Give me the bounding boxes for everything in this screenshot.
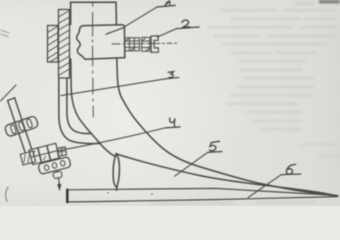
- leader 6: [248, 175, 281, 198]
- clamp right square with bolt cross: [57, 147, 67, 156]
- bent strap inner: [67, 78, 92, 134]
- blade long edge (6): [117, 154, 339, 196]
- column (stand): [71, 2, 121, 96]
- leader 5: [175, 152, 208, 176]
- label 2: [176, 20, 199, 29]
- faint mark left edge: [1, 30, 9, 37]
- horizontal centerline of screw: [112, 42, 177, 45]
- hatched wall block A: [59, 10, 70, 79]
- C-bracket of screw (2): [151, 36, 158, 53]
- bent strap outer: [59, 78, 99, 144]
- bleed-through text smudges (back of page): [319, 0, 340, 3]
- shank rear edge / share top curve: [121, 97, 337, 197]
- label 3: [166, 72, 179, 79]
- tine rod: [8, 98, 32, 152]
- label 6: [281, 164, 301, 174]
- clamp middle block grid: [29, 143, 59, 164]
- cam body (1): [77, 25, 125, 59]
- label 1: [157, 1, 176, 7]
- adjusting screw block 1 (hatched): [125, 38, 140, 51]
- leader 2: [157, 29, 176, 37]
- share point lens: [113, 153, 119, 190]
- thin pin line at rod top: [1, 85, 17, 101]
- bottom bar (frame/ground bar): [67, 188, 337, 202]
- lower clamp plate with holes: [38, 157, 71, 175]
- faint parenthesis mark bottom-left: [6, 187, 9, 201]
- label 5: [208, 141, 222, 152]
- rod stem and arrow tip: [58, 179, 61, 185]
- label 4 (handwritten ch-like 4): [165, 118, 180, 128]
- bolt tab under lower plate: [53, 171, 63, 179]
- adjusting screw block 2 (hatched): [142, 37, 150, 51]
- leader 1: [106, 7, 157, 34]
- leader 3: [61, 79, 166, 96]
- vertical centerline: [92, 3, 95, 117]
- clamp small left plate: [20, 151, 35, 165]
- hatched wall block B: [48, 26, 59, 63]
- shank front edge: [71, 92, 115, 157]
- upper clamp plate with slots: [4, 116, 39, 138]
- leader 4: [58, 128, 166, 151]
